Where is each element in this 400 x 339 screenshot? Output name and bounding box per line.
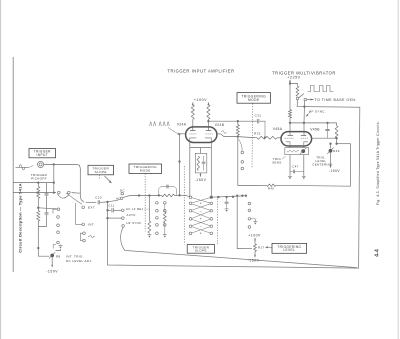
ground V45 cath a	[288, 175, 292, 176]
arrow trigger slope	[105, 176, 112, 183]
contact line b	[83, 239, 86, 242]
box triggering mode mid	[129, 164, 162, 174]
capacitor C cathode	[203, 156, 205, 162]
wire +225 branch right	[290, 84, 298, 87]
capacitor C47	[290, 171, 293, 173]
wire grid to fb	[336, 138, 338, 144]
node fb corner	[335, 143, 337, 145]
wire C11 stub	[108, 209, 111, 211]
arrow spikes to tube	[168, 128, 181, 136]
resistor R17	[254, 244, 257, 252]
svg-text:R17: R17	[258, 246, 264, 250]
svg-text:R49: R49	[333, 149, 339, 153]
connector J1 inner	[39, 163, 42, 166]
contact line a	[83, 232, 86, 235]
svg-text:V24B: V24B	[215, 123, 225, 127]
pot R43	[301, 149, 305, 153]
resistor R mode drop	[148, 221, 151, 233]
wire to time base	[307, 99, 314, 101]
ground mode drop a	[148, 234, 152, 235]
node hf sync cross	[303, 105, 305, 107]
resistor R out	[296, 86, 299, 96]
wire mode sw drop a	[148, 196, 150, 222]
contact col L1	[57, 208, 60, 211]
wire main bus	[130, 194, 159, 196]
dashed link triggering mode mid	[144, 174, 146, 232]
potentiometer R49	[329, 149, 333, 153]
wire V24B grid to node	[221, 134, 239, 137]
wire C10 to contacts	[100, 201, 106, 203]
svg-text:.... ....... ..... ........ ..: .... ....... ..... ........ ... .....	[90, 287, 144, 291]
wire int tap	[75, 223, 82, 225]
box triggering mode top	[237, 93, 271, 104]
node pickoff b	[53, 181, 55, 183]
svg-text:–: –	[200, 224, 202, 228]
box trigger slope lower	[187, 245, 214, 254]
contact mc5a	[156, 232, 159, 235]
svg-text:PICKOFF: PICKOFF	[31, 177, 47, 181]
contact bus c1	[58, 191, 61, 194]
contact col L2	[57, 216, 60, 219]
V24A cathode	[190, 138, 197, 143]
contact col R3	[248, 218, 251, 221]
wire +100V left	[192, 102, 194, 104]
resistor R mode b	[163, 212, 166, 223]
contact slope arm b	[241, 161, 244, 164]
node bb1	[217, 196, 219, 198]
wiper arrow to box	[266, 246, 272, 248]
capacitor C to gnd	[226, 197, 228, 202]
wire R40 lead	[238, 184, 267, 186]
wire V24A grid riser	[180, 134, 186, 196]
svg-text:+100V: +100V	[194, 98, 207, 102]
svg-text:C11: C11	[108, 204, 114, 208]
V24B grid dashes	[206, 133, 213, 135]
contact col L3	[57, 224, 60, 227]
node divider bottom	[37, 247, 39, 249]
svg-text:+: +	[200, 232, 202, 236]
wire level riser	[237, 196, 252, 249]
svg-text:MODE: MODE	[248, 98, 260, 102]
contact out b	[304, 98, 307, 101]
contact AUTO	[122, 217, 125, 220]
svg-text:C10: C10	[95, 196, 102, 200]
node matrix top right	[210, 196, 212, 198]
node divider mid	[37, 207, 39, 209]
svg-text:. .... ...... ....... .. .....: . .... ...... ....... .. ......	[40, 75, 85, 79]
svg-text:... ..... ........ .....: ... ..... ........ .....	[180, 302, 215, 306]
node bb5	[245, 195, 247, 197]
bleed ghost rows	[30, 75, 229, 306]
svg-text:MODE: MODE	[140, 168, 151, 172]
node level riser top	[236, 195, 238, 197]
node plate rail a	[289, 122, 291, 124]
wire R40 out	[276, 184, 351, 187]
wire R32 to grid	[277, 137, 281, 139]
wire cathode gnd legs	[289, 155, 291, 176]
V24A grid dashes	[189, 133, 196, 135]
resistor R44 plate	[289, 110, 292, 118]
switch arm ext curve	[66, 193, 82, 205]
wire V24B plate lead	[207, 119, 209, 130]
node input junction	[53, 163, 55, 165]
resistor R1 divider upper	[37, 187, 40, 199]
contact out a	[296, 97, 299, 100]
svg-text:INT.: INT.	[88, 223, 95, 227]
node main bus b	[148, 194, 150, 196]
wire +100 level down	[254, 238, 256, 244]
svg-text:4-4: 4-4	[375, 249, 381, 257]
switch arm AC to bus	[123, 196, 130, 198]
node R49 stub	[329, 143, 331, 145]
resistor R24 plate	[207, 105, 210, 120]
trig sens box	[285, 148, 309, 155]
svg-text:TO TIME BASE GEN.: TO TIME BASE GEN.	[315, 98, 357, 102]
resistor R inline bus	[162, 194, 175, 197]
node plate rail c	[326, 122, 328, 124]
node AUTO tap	[106, 217, 108, 219]
resistor R40	[267, 184, 277, 186]
contact col L4	[57, 231, 60, 234]
box trigger input	[29, 149, 56, 158]
svg-text:CENTERING: CENTERING	[312, 163, 333, 167]
capacitor C10	[98, 200, 99, 204]
node C11 tap	[106, 209, 108, 211]
wire to R32	[238, 137, 257, 138]
connector J1 outer	[38, 161, 44, 167]
svg-text:SENS.: SENS.	[272, 161, 283, 165]
contact mc4a	[156, 224, 159, 227]
contact col L5	[57, 241, 60, 244]
wire pickoff bus	[13, 182, 54, 184]
contact AC	[120, 197, 123, 200]
svg-text:V45A: V45A	[273, 127, 283, 131]
wire V45B grid out	[312, 137, 337, 139]
RC parallel block	[159, 187, 177, 196]
node C10 loop junction	[106, 201, 108, 203]
contact DC	[121, 192, 124, 195]
potentiometer R8	[50, 254, 54, 258]
svg-text:HF SYNC: HF SYNC	[127, 221, 142, 225]
node lower bus b	[53, 191, 55, 193]
node pickoff a	[37, 181, 39, 183]
wire slope bottom run	[121, 227, 357, 267]
wire divider to pot	[38, 221, 49, 256]
hook col L1	[53, 209, 57, 213]
svg-text:R32: R32	[254, 132, 261, 136]
dashed slope right	[216, 196, 218, 245]
node bb3	[232, 196, 234, 198]
contact mc4b	[164, 224, 167, 227]
svg-text:... ..... ... ........ .....: ... ..... ... ........ .....	[150, 87, 191, 91]
V45B grid dashes	[301, 137, 309, 139]
node V45B grid	[335, 137, 337, 139]
V24A plate bar	[190, 130, 196, 132]
switch arm arc left	[58, 194, 70, 198]
svg-text:.. ....... ..... ... .........: .. ....... ..... ... .......... ....	[55, 100, 108, 104]
wire divider link	[37, 183, 39, 187]
svg-text:–: –	[200, 209, 202, 213]
contact mc2a	[156, 209, 159, 212]
svg-text:V24A: V24A	[177, 123, 187, 127]
node C31 tap	[237, 120, 239, 122]
contact col R4	[248, 226, 251, 229]
node main bus c	[158, 194, 160, 196]
contact AC LF REJ	[122, 209, 125, 212]
wire input to bend	[44, 163, 77, 165]
pointer trig sens	[282, 156, 286, 159]
ground V45 cath b	[302, 175, 306, 176]
wire R17 down	[254, 251, 256, 257]
node main bus a	[138, 194, 140, 196]
wire V45A plate lead	[289, 123, 291, 135]
wire plate rail	[290, 118, 337, 123]
line sine icon	[88, 235, 95, 238]
wire input drop	[53, 164, 55, 192]
node lower bus a	[36, 191, 38, 193]
contact mc1a	[156, 202, 159, 205]
svg-text:Circuit Description — Type 541: Circuit Description — Type 541A	[18, 183, 23, 252]
svg-text:HF SYNC.: HF SYNC.	[309, 110, 326, 114]
capacitor C2 divider lower	[46, 208, 48, 213]
node grid node B	[237, 135, 239, 137]
resistor R cathode	[197, 156, 199, 171]
square wave icon	[308, 86, 334, 92]
contact mc1b	[164, 202, 167, 205]
svg-text:+: +	[200, 202, 202, 206]
wire V45B plate lead	[303, 123, 305, 135]
wire C31 out	[260, 121, 266, 129]
contact col R2	[248, 209, 251, 212]
contact bus c2	[68, 191, 71, 194]
photo right edge	[397, 0, 399, 339]
wire +225 down	[289, 80, 291, 84]
wire cathode legs	[189, 142, 191, 197]
ground bottom cap	[225, 208, 229, 209]
node +225 split	[289, 82, 291, 84]
wire V45 cathode legs	[289, 146, 291, 148]
wire mode drop b	[164, 204, 166, 212]
wire plate to C31	[208, 120, 257, 122]
contact HF SYNC	[122, 225, 125, 228]
resistor R2 divider lower	[37, 211, 40, 222]
resistor R21 plate	[191, 105, 194, 120]
wire V24A plate lead	[192, 119, 194, 130]
input spikes icon	[150, 122, 170, 127]
svg-text:R8: R8	[56, 255, 61, 259]
box trigger slope upper	[88, 165, 114, 175]
contact col R1	[248, 202, 251, 205]
capacitor C1 divider upper	[46, 183, 48, 194]
svg-text:... ......... ..... ..: ... ......... ..... ..	[30, 128, 62, 132]
dashed link trigger slope	[99, 175, 101, 180]
wire int feed riser	[74, 203, 76, 224]
wire R49 down	[330, 153, 332, 168]
capacitor C31	[258, 119, 259, 123]
wire R31 bottom	[237, 135, 239, 136]
node plate rail b	[303, 122, 305, 124]
wire hf sync return loop	[107, 100, 359, 268]
V45A plate bar	[288, 135, 293, 137]
V24B grid sine icon	[222, 131, 227, 134]
photo left edge	[0, 0, 2, 339]
wire divider tap	[38, 208, 57, 209]
wire lower bus	[13, 192, 56, 194]
svg-text:+225V: +225V	[287, 75, 300, 79]
svg-text:AC LF REJ (∼): AC LF REJ (∼)	[126, 207, 150, 211]
svg-text:INPUT: INPUT	[37, 153, 48, 157]
svg-text:+: +	[200, 217, 202, 221]
wire R31 top	[237, 121, 239, 124]
capacitor C11	[112, 208, 113, 212]
switch arm grid	[239, 139, 243, 151]
svg-text:Fig. 4-3. Simplified Type 541A: Fig. 4-3. Simplified Type 541A Trigger C…	[376, 121, 380, 205]
wire mode b gnd	[164, 223, 166, 234]
wire cathode tap	[200, 148, 202, 154]
arrow hf sync	[306, 112, 311, 117]
wire cathode bar	[190, 147, 212, 149]
svg-text:EXT.: EXT.	[88, 206, 96, 210]
contact ext	[82, 206, 85, 209]
svg-text:-150V: -150V	[46, 270, 58, 274]
matrix contacts left col	[189, 196, 192, 199]
resistor R32	[257, 136, 277, 139]
wire V24B grid out	[217, 133, 221, 135]
svg-text:C47: C47	[292, 165, 298, 169]
svg-text:-150V: -150V	[329, 169, 340, 173]
V45A grid dashes	[285, 137, 294, 139]
svg-text:SLOPE: SLOPE	[195, 249, 207, 253]
cathode RC box	[195, 153, 207, 173]
wire +100V right	[207, 102, 209, 104]
wire cathode box down	[200, 173, 202, 177]
wire pot R49 stub	[330, 144, 332, 149]
tube V45 envelope	[281, 132, 312, 146]
V45B cathode	[304, 142, 308, 146]
wire R8 gnd stub	[56, 249, 61, 251]
wire ext drop	[80, 171, 84, 202]
wire R8 down	[51, 257, 53, 267]
contact slope arm c	[241, 167, 244, 170]
contact mc3a	[156, 217, 159, 220]
svg-text:R40: R40	[268, 187, 274, 191]
resistor R43 in box	[287, 150, 299, 152]
V45A cathode	[286, 142, 290, 146]
wire hf sync drop	[303, 101, 306, 123]
wire C31 drop to R32	[264, 130, 266, 138]
V24B plate bar	[206, 130, 212, 132]
svg-text:DC LEVEL ADJ.: DC LEVEL ADJ.	[66, 259, 93, 263]
svg-text:C31: C31	[255, 113, 262, 117]
ground col R	[251, 219, 256, 221]
svg-text:-150V: -150V	[195, 178, 207, 182]
svg-text:SLOPE: SLOPE	[95, 170, 107, 174]
wire bus to matrix	[180, 195, 190, 196]
node bb2	[225, 196, 227, 198]
matrix contacts right col	[210, 196, 213, 199]
ground mode drop b	[163, 234, 167, 235]
dashed link mode right	[251, 104, 254, 169]
svg-text:+100V: +100V	[248, 233, 261, 237]
wire +225 main down	[289, 84, 291, 110]
svg-text:..... ... ....... ......: ..... ... ....... ......	[120, 114, 155, 118]
hook col L5	[53, 245, 56, 249]
svg-text:DC: DC	[120, 188, 126, 192]
svg-text:-150V: -150V	[248, 259, 260, 263]
node bb4	[241, 195, 243, 197]
input sine icon	[16, 165, 30, 170]
wire bus segs	[159, 194, 162, 196]
svg-text:LEVEL: LEVEL	[283, 248, 295, 252]
svg-text:TRIGGER MULTIVIBRATOR: TRIGGER MULTIVIBRATOR	[272, 71, 336, 76]
resistor R45 coupling	[335, 126, 338, 139]
contact int	[82, 223, 85, 226]
wire AC to ext row	[108, 199, 121, 202]
matrix cross wires	[192, 198, 211, 203]
node grid riser mid	[178, 160, 180, 162]
wire fb across	[337, 143, 351, 145]
tube V24 envelope	[186, 127, 217, 143]
svg-text:AUTO: AUTO	[127, 213, 137, 217]
node bus grid	[178, 194, 180, 196]
resistor R31 grid leak	[236, 125, 239, 136]
ground near R8	[59, 245, 63, 246]
V24B cathode	[205, 138, 211, 143]
wire R45 top	[336, 123, 338, 126]
capacitor C45 coupling	[327, 123, 329, 129]
wire fb riser	[350, 144, 352, 187]
node V24B plate tap	[207, 120, 209, 122]
contact mc2b	[164, 209, 167, 212]
box triggering level	[272, 243, 307, 253]
page frame left border	[12, 57, 14, 272]
wire AUTO stub	[108, 217, 122, 219]
switch arm out	[299, 94, 304, 98]
bracket line pair	[80, 233, 83, 240]
dashed slope left	[183, 166, 185, 245]
wire ext row	[86, 201, 96, 203]
wire bottom bus	[211, 196, 246, 198]
svg-text:.. ..... ....... ...: .. ..... ....... ...	[200, 143, 229, 147]
contact slope arm a	[241, 151, 244, 154]
node R32 mid	[264, 136, 266, 138]
svg-text:TRIGGER INPUT AMPLIFIER: TRIGGER INPUT AMPLIFIER	[167, 68, 234, 73]
wire R40 node drop	[237, 137, 239, 186]
svg-text:V45B: V45B	[310, 128, 320, 132]
V45B plate bar	[301, 135, 306, 137]
